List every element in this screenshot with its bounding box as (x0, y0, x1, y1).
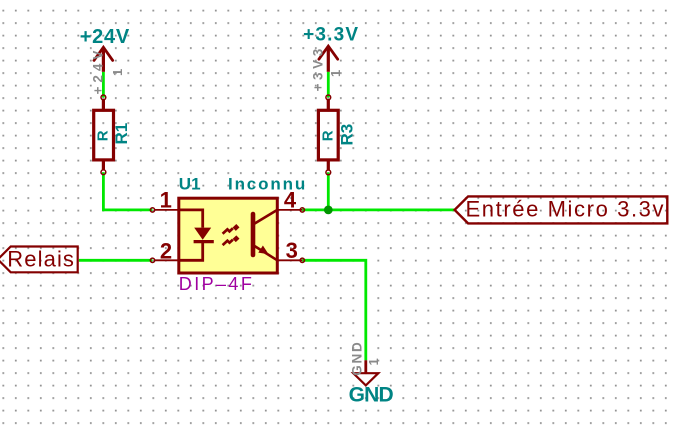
svg-text:GND: GND (350, 340, 365, 375)
svg-text:1: 1 (328, 70, 343, 77)
svg-text:R: R (95, 130, 112, 141)
svg-text:+24V: +24V (90, 47, 105, 95)
svg-text:+3V3: +3V3 (311, 45, 326, 91)
svg-text:R1: R1 (112, 123, 131, 145)
svg-text:1: 1 (110, 69, 125, 76)
svg-text:2: 2 (160, 239, 172, 264)
svg-text:4: 4 (284, 187, 297, 212)
svg-text:Relais: Relais (7, 246, 75, 271)
svg-text:R3: R3 (338, 124, 357, 146)
svg-text:3: 3 (286, 238, 298, 263)
svg-text:1: 1 (160, 187, 172, 212)
svg-text:GND: GND (349, 383, 394, 406)
svg-text:1: 1 (366, 358, 381, 365)
svg-text:Entrée Micro 3.3v: Entrée Micro 3.3v (466, 197, 666, 222)
svg-text:R: R (319, 130, 336, 141)
svg-text:+3.3V: +3.3V (303, 25, 359, 46)
svg-text:U1: U1 (179, 175, 201, 194)
svg-text:+24V: +24V (80, 26, 130, 48)
svg-text:DIP–4F: DIP–4F (179, 274, 254, 294)
